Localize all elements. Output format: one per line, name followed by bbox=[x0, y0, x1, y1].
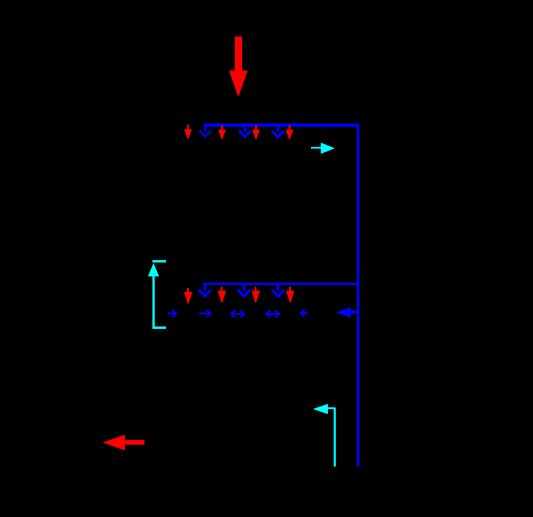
small red down arrow 2d under line 2 bbox=[286, 287, 294, 304]
blue drop arrow 1a (left elbow of line 1) bbox=[199, 125, 211, 137]
small red down arrow 1d under line 1 bbox=[286, 125, 294, 140]
cyan elbow arrow (bottom side stream pointing left) bbox=[313, 404, 336, 467]
blue drop arrow 1b on line 1 bbox=[239, 126, 251, 137]
small blue right arrow B (exchange row) bbox=[199, 310, 211, 317]
big red left arrow (outflow at bottom left) bbox=[103, 435, 145, 451]
small red down arrow 2c under line 2 bbox=[252, 287, 260, 304]
small blue double arrow D (exchange row) bbox=[267, 310, 280, 317]
small red down arrow 2b under line 2 bbox=[218, 287, 226, 304]
small red down arrow 2a under line 2 bbox=[184, 288, 192, 305]
wire: blue horizontal distribution line 2 bbox=[203, 283, 360, 285]
small red down arrow 1c under line 1 bbox=[252, 125, 260, 140]
blue drop arrow 2a (left elbow of line 2) bbox=[199, 284, 211, 296]
small blue double arrow C (exchange row) bbox=[231, 310, 244, 317]
small blue left arrow E (exchange row) bbox=[301, 310, 309, 317]
blue drop arrow 2b on line 2 bbox=[238, 284, 251, 296]
cyan extent bracket with up arrow (left measurement indicator) bbox=[148, 260, 166, 329]
small red down arrow 1b under line 1 bbox=[218, 125, 226, 140]
blue drop arrow 2c on line 2 bbox=[272, 284, 285, 296]
big blue left arrow from vertical line (recycle inflow) bbox=[336, 307, 357, 318]
blue drop arrow 1c on line 1 bbox=[272, 126, 284, 137]
small blue right arrow A (exchange row) bbox=[168, 310, 176, 317]
big red down arrow (main inflow at top) bbox=[229, 37, 248, 98]
cyan right arrow (side stream near top) bbox=[311, 143, 335, 154]
wire: blue vertical return line (right side) bbox=[357, 124, 359, 467]
wire: blue horizontal distribution line 1 bbox=[204, 124, 359, 127]
small red down arrow 1a under line 1 bbox=[184, 125, 192, 140]
